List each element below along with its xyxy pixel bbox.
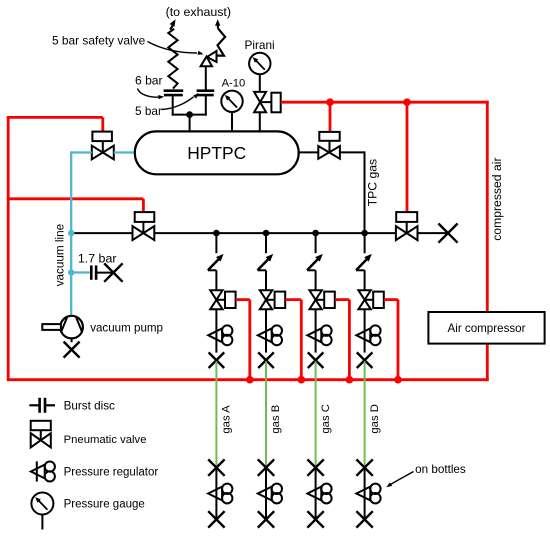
wire: branch A lower (215, 309, 217, 352)
wire: branch C to valve (315, 270, 317, 290)
pressure regulator (gas C panel) (307, 325, 331, 345)
node: vacuum tee at manifold (68, 230, 74, 236)
flow arrow branch D (356, 254, 372, 270)
pneumatic valve (TPC gas outlet) (318, 132, 340, 159)
legend label: Pressure regulator (64, 467, 159, 479)
pressure regulator (gas C bottle) (307, 484, 331, 504)
legend: burst disc symbol (29, 398, 55, 413)
svg-text:(to exhaust): (to exhaust) (166, 5, 231, 19)
svg-text:vacuum line: vacuum line (54, 224, 67, 286)
manual valve (gas D bottle) (356, 511, 372, 527)
wire: valve to vessel (cyan) (114, 151, 134, 153)
pneumatic valve (gas A) (210, 290, 235, 309)
label: 1.7 bar (78, 251, 117, 265)
wire: red feed to vacuum valve (7, 117, 103, 131)
pointer: 6 bar (138, 89, 165, 100)
svg-text:Pneumatic valve: Pneumatic valve (64, 434, 147, 446)
wire: branch D to valve (364, 270, 366, 290)
svg-text:TPC gas: TPC gas (365, 159, 379, 206)
burst disc 6 bar (164, 91, 184, 116)
wire: branch B lower (265, 309, 267, 352)
wire: branch B to valve (265, 270, 267, 290)
node: relief header junction (186, 111, 193, 118)
manual valve (gas B panel) (258, 352, 274, 368)
pressure regulator (gas A bottle) (208, 484, 232, 504)
wire: relief header (172, 114, 207, 116)
node: red junction gas C (346, 376, 354, 384)
manual valve (gas A panel) (209, 352, 225, 368)
wire: gas B supply (green) (265, 361, 267, 467)
air compressor box (428, 312, 544, 344)
label: 6 bar (135, 74, 163, 88)
wire: red feed gas A valve (236, 300, 250, 380)
pneumatic valve (gas C) (309, 290, 334, 309)
label: 5 bar (135, 104, 162, 118)
label: gas C (320, 404, 332, 434)
wire: compressed air header (red) (281, 101, 489, 104)
label: gas D (369, 404, 381, 434)
manual valve (gas C bottle) (307, 511, 323, 527)
pointer: 5 bar (162, 93, 199, 110)
label: (to exhaust) (166, 5, 231, 19)
manual valve (manifold end cap) (438, 224, 457, 243)
pressure regulator (gas D bottle) (356, 484, 380, 504)
wire: red feed gas C valve (335, 300, 350, 380)
node: red junction gas D (394, 376, 402, 384)
exhaust arrow (right relief line) (215, 19, 220, 28)
wire: vacuum line to valve (cyan) (70, 151, 92, 153)
wire: relief header to vessel (189, 115, 191, 133)
svg-text:5 bar: 5 bar (135, 104, 162, 118)
wire: bottle station C (315, 468, 317, 520)
burst disc 5 bar (197, 91, 215, 116)
node: red junction at vent valve (326, 98, 334, 106)
wire: branch C lower (315, 309, 317, 352)
svg-text:gas C: gas C (320, 404, 332, 434)
pressure gauge A-10 (221, 91, 242, 133)
wire: TPC gas line (340, 151, 365, 234)
legend: pressure regulator symbol (31, 461, 55, 481)
svg-text:A-10: A-10 (222, 78, 246, 90)
legend label: Pneumatic valve (64, 434, 147, 446)
label: TPC gas (365, 159, 379, 206)
pressure gauge Pirani (249, 53, 270, 92)
label: A-10 (222, 78, 246, 90)
wire: red feed gas D valve (384, 300, 398, 380)
label: vacuum line (54, 224, 67, 286)
wire: vacuum line (cyan) (70, 151, 72, 316)
node: manifold junction gas A (213, 230, 220, 237)
pneumatic valve (vacuum isolation) (92, 132, 114, 160)
flow arrow branch A (208, 254, 224, 270)
manual valve (gas D bottle top) (356, 459, 372, 475)
pneumatic valve (vessel vent) (254, 92, 281, 132)
wire: branch B upper (265, 233, 267, 253)
legend label: Pressure gauge (64, 498, 145, 510)
burst disc 1.7 bar (91, 265, 113, 279)
node: manifold junction gas D (361, 230, 368, 237)
wire: red feed to manifold inlet valve (8, 199, 143, 212)
manual valve (gas A bottle) (208, 511, 224, 527)
label: on bottles (415, 463, 466, 476)
wire: branch D upper (364, 233, 366, 253)
pneumatic valve (gas D) (358, 290, 383, 309)
pressure regulator (gas B bottle) (258, 484, 282, 504)
node: red junction at manifold end valve (403, 98, 411, 106)
pneumatic valve (gas B) (260, 290, 285, 309)
manual valve (1.7 bar branch) (104, 263, 122, 281)
wire: red drop to manifold end valve (406, 102, 409, 212)
wire: vessel to TPC outlet valve (298, 151, 319, 153)
svg-text:Pressure regulator: Pressure regulator (64, 467, 159, 479)
svg-text:Air compressor: Air compressor (448, 322, 526, 335)
svg-text:Pirani: Pirani (245, 38, 275, 52)
node: manifold junction gas B (263, 230, 270, 237)
pointer: 5 bar safety valve (148, 42, 204, 55)
manual valve (pump vent) (64, 342, 80, 358)
manual valve (gas A bottle top) (208, 459, 224, 475)
label: gas A (221, 405, 233, 434)
node: red junction gas A (246, 376, 254, 384)
pneumatic valve (manifold end) (396, 212, 418, 240)
wire: branch C upper (315, 233, 317, 253)
wire: gas D supply (green) (364, 361, 366, 467)
wire: compressed air right drop (red) (486, 101, 489, 381)
wire: gas C supply (green) (315, 361, 317, 467)
manual valve (gas D panel) (357, 352, 373, 368)
svg-text:compressed air: compressed air (490, 157, 504, 240)
exhaust arrow (left relief line) (170, 19, 176, 29)
svg-text:gas B: gas B (270, 405, 282, 434)
label: vacuum pump (90, 322, 163, 335)
svg-text:Pressure gauge: Pressure gauge (64, 498, 145, 510)
vessel HPTPC (135, 131, 299, 174)
node: vacuum tee at 1.7 bar branch (68, 269, 74, 275)
manual valve (gas B bottle) (258, 511, 274, 527)
wire: bottle station D (364, 468, 366, 520)
pneumatic valve (manifold inlet) (133, 212, 155, 240)
svg-text:gas D: gas D (369, 404, 381, 434)
wire: bottle station A (215, 468, 217, 520)
wire: compressed air left riser (red) (7, 116, 10, 381)
node: manifold junction gas C (312, 230, 319, 237)
label: HPTPC (187, 143, 246, 163)
wire: branch D lower (364, 309, 366, 352)
pressure regulator (gas B panel) (258, 325, 282, 345)
manual valve (gas C bottle top) (307, 459, 323, 475)
spring (5 bar safety valve) (216, 28, 225, 55)
wire: safety valve to burst disc (205, 66, 207, 90)
wire: branch A upper (215, 233, 217, 253)
pointer: on bottles (386, 472, 413, 488)
vacuum pump (42, 316, 83, 342)
wire: gas A supply (green) (215, 361, 217, 467)
wire: 1.7 bar branch (cyan) (71, 271, 90, 273)
svg-text:HPTPC: HPTPC (187, 143, 246, 163)
wire: gas manifold (71, 232, 448, 234)
flow arrow branch C (307, 254, 323, 270)
legend: pressure gauge symbol (31, 493, 53, 530)
safety valve 5 bar (angle valve) (201, 51, 217, 66)
manual valve (gas C panel) (308, 352, 324, 368)
label: Pirani (245, 38, 275, 52)
label: Air compressor (448, 322, 526, 335)
label: gas B (270, 405, 282, 434)
label: 5 bar safety valve (52, 34, 146, 48)
wire: red feed gas B valve (285, 300, 301, 380)
svg-text:Burst disc: Burst disc (64, 400, 115, 413)
pressure regulator (gas A panel) (208, 325, 232, 345)
svg-text:1.7 bar: 1.7 bar (78, 251, 117, 265)
svg-text:on bottles: on bottles (415, 463, 466, 476)
label: compressed air (490, 157, 504, 240)
spring (left safety relief) (168, 29, 177, 89)
svg-text:6 bar: 6 bar (135, 74, 163, 88)
manual valve (gas B bottle top) (258, 459, 274, 475)
pressure regulator (gas D panel) (356, 325, 380, 345)
wire: bottle station B (265, 468, 267, 520)
wire: branch A to valve (215, 270, 217, 290)
svg-text:5 bar safety valve: 5 bar safety valve (52, 34, 146, 48)
wire: compressed air bottom bus (red) (8, 378, 489, 381)
legend label: Burst disc (64, 400, 115, 413)
flow arrow branch B (258, 254, 274, 270)
svg-text:gas A: gas A (221, 405, 233, 434)
wire: red drop to TPC outlet valve (329, 102, 332, 132)
node: red junction gas B (298, 376, 306, 384)
legend: pneumatic valve symbol (31, 421, 51, 448)
svg-text:vacuum pump: vacuum pump (90, 322, 163, 335)
